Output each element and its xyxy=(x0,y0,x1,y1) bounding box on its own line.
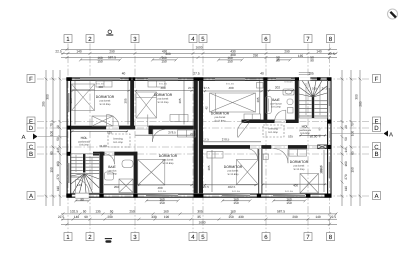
svg-text:S=1.2mp: S=1.2mp xyxy=(113,141,123,144)
nightstand dorm-br xyxy=(263,154,268,160)
door post H1 xyxy=(149,126,154,135)
door baie-top xyxy=(275,110,286,121)
svg-text:145: 145 xyxy=(344,147,348,153)
svg-text:DORMITOR: DORMITOR xyxy=(154,93,173,97)
interior room dim lines xyxy=(71,81,327,192)
exterior wall outlines (double line) xyxy=(67,78,332,198)
winder rays xyxy=(299,94,313,97)
post top-left corner xyxy=(66,77,72,81)
bottom overall dim xyxy=(61,223,337,226)
bed dorm-br xyxy=(300,174,319,194)
svg-text:A: A xyxy=(21,134,25,141)
wall V4 baie/hol xyxy=(295,80,299,122)
door baie-bottom xyxy=(104,154,115,165)
svg-text:400: 400 xyxy=(98,85,103,89)
svg-text:190: 190 xyxy=(164,215,170,219)
svg-text:65: 65 xyxy=(351,151,355,155)
party wall leaf 2 xyxy=(199,80,203,193)
bed dorm2 xyxy=(136,92,157,118)
wall H3 seg c xyxy=(288,145,307,149)
svg-text:±1.00: ±1.00 xyxy=(99,144,107,148)
svg-text:587.5: 587.5 xyxy=(277,209,285,213)
axis 2 xyxy=(89,44,91,233)
stair walk line xyxy=(75,155,77,172)
svg-text:140: 140 xyxy=(316,49,322,53)
windows (gray glazing bands) xyxy=(69,79,330,196)
svg-text:22.5: 22.5 xyxy=(328,52,334,56)
svg-text:S=1.9mp: S=1.9mp xyxy=(268,131,278,134)
window baie top xyxy=(276,78,291,80)
svg-text:250: 250 xyxy=(253,53,259,57)
treads right flight xyxy=(314,100,327,102)
dressing left xyxy=(108,134,130,147)
wardrobe dorm-bl xyxy=(178,130,196,137)
rotated interior dims xyxy=(69,97,323,174)
svg-text:150: 150 xyxy=(161,59,167,63)
wall H3 seg a xyxy=(203,145,250,149)
wall H3 seg b xyxy=(261,145,271,149)
entry door gap top-right xyxy=(299,77,310,81)
north symbol xyxy=(388,9,398,19)
axis F xyxy=(37,78,371,80)
wall H4 seg b xyxy=(114,152,137,156)
window right wall stair xyxy=(328,88,330,106)
svg-text:160: 160 xyxy=(344,161,348,167)
axis 8 xyxy=(329,44,331,233)
interior dimension texts xyxy=(77,85,328,190)
wall H1 seg a xyxy=(71,126,107,130)
window stair top-right xyxy=(321,78,327,80)
svg-text:fe=1.5m: fe=1.5m xyxy=(158,190,166,193)
top overall dim line xyxy=(61,48,337,51)
shower baie-bottom xyxy=(119,179,133,193)
hatch box H3 right xyxy=(318,145,327,149)
axis 1 xyxy=(67,44,69,233)
svg-text:40: 40 xyxy=(260,71,264,75)
window dorm2 top xyxy=(148,78,178,80)
svg-text:DORMITOR: DORMITOR xyxy=(224,165,243,169)
svg-text:285: 285 xyxy=(359,101,363,107)
dresser dorm2 xyxy=(170,115,188,122)
porch lines bottom-left xyxy=(75,198,89,200)
svg-text:270: 270 xyxy=(56,174,60,180)
svg-text:90: 90 xyxy=(310,59,314,63)
marker 2 bottom xyxy=(86,233,94,241)
section marker A left xyxy=(21,134,37,142)
stair bottom-left xyxy=(71,154,100,193)
window dorm1 top xyxy=(80,78,120,80)
marker F right xyxy=(373,75,381,83)
post axis7 bottom xyxy=(306,194,310,198)
svg-text:17.5: 17.5 xyxy=(203,138,209,142)
marker 8 bottom xyxy=(327,233,335,241)
window left wall dorm1 xyxy=(68,93,70,112)
svg-text:B: B xyxy=(374,151,378,158)
svg-text:S=12.8mp: S=12.8mp xyxy=(163,162,175,165)
svg-text:S=12.2mp: S=12.2mp xyxy=(158,101,170,104)
post right wall C xyxy=(327,145,331,149)
svg-text:278.5: 278.5 xyxy=(168,130,176,134)
svg-text:305: 305 xyxy=(256,97,260,102)
axis C xyxy=(37,146,371,148)
wall V7 stair/baie-bottom xyxy=(100,152,104,194)
room labels xyxy=(78,93,317,176)
bed dorm-bm xyxy=(237,160,259,185)
svg-text:27.5: 27.5 xyxy=(322,86,328,90)
svg-text:270: 270 xyxy=(344,174,348,180)
svg-text:fe=0.6m: fe=0.6m xyxy=(285,81,293,84)
svg-text:90: 90 xyxy=(80,197,84,201)
winder rays xyxy=(71,174,84,177)
svg-text:587.5: 587.5 xyxy=(108,55,116,59)
wall H4 seg a xyxy=(93,152,105,156)
svg-text:290: 290 xyxy=(109,49,115,53)
wall H2 seg b xyxy=(286,120,299,123)
svg-text:100: 100 xyxy=(50,131,54,137)
post V7 bottom xyxy=(99,194,103,198)
section line stubs xyxy=(38,134,383,137)
post V8 bottom xyxy=(257,194,261,198)
svg-text:27.5: 27.5 xyxy=(204,86,210,90)
svg-text:400: 400 xyxy=(160,86,165,90)
window dorm-bm bottom xyxy=(222,194,250,197)
marker 8 top xyxy=(327,35,335,43)
svg-text:160: 160 xyxy=(230,209,236,213)
svg-text:430: 430 xyxy=(238,215,244,219)
post axis6 top xyxy=(263,77,267,81)
svg-text:90: 90 xyxy=(276,59,280,63)
svg-text:135: 135 xyxy=(95,209,101,213)
post V4 top xyxy=(295,77,299,81)
porch lines top-right xyxy=(299,72,311,74)
svg-text:HOL: HOL xyxy=(81,136,88,140)
window captions xyxy=(96,81,293,193)
post right wall E xyxy=(327,120,331,124)
top wall faces xyxy=(67,77,332,79)
wall H2 seg a (dorm3 stub + baie) xyxy=(242,120,275,123)
svg-text:402.5: 402.5 xyxy=(228,185,236,189)
svg-text:300: 300 xyxy=(355,94,359,100)
svg-text:160: 160 xyxy=(163,209,169,213)
svg-text:140: 140 xyxy=(76,49,82,53)
marker 7 bottom xyxy=(304,233,312,241)
post left wall B xyxy=(67,152,71,156)
svg-text:285: 285 xyxy=(42,101,46,107)
svg-text:202: 202 xyxy=(275,86,280,90)
svg-text:290: 290 xyxy=(292,215,298,219)
svg-text:S=4.0mp: S=4.0mp xyxy=(107,173,117,176)
svg-text:D: D xyxy=(29,125,34,132)
svg-text:50: 50 xyxy=(110,209,114,213)
svg-text:fe=1.5m: fe=1.5m xyxy=(285,190,293,193)
svg-text:70: 70 xyxy=(351,123,355,127)
wall V1 dorm1/dorm2 xyxy=(130,80,134,129)
wc baie-bottom xyxy=(122,160,133,168)
marker D left xyxy=(27,124,35,132)
marker 1 top xyxy=(64,35,72,43)
window middle glazing lines xyxy=(69,79,330,196)
svg-text:110: 110 xyxy=(344,186,348,191)
svg-text:150: 150 xyxy=(228,215,234,219)
dresser dorm1 xyxy=(92,116,113,126)
post party wall top xyxy=(194,77,204,81)
dressing right xyxy=(263,125,284,137)
window dorm3 top xyxy=(215,78,245,80)
wardrobe dorm3 xyxy=(244,114,261,119)
svg-text:430: 430 xyxy=(151,215,157,219)
svg-text:70: 70 xyxy=(50,123,54,127)
svg-text:202: 202 xyxy=(114,185,119,189)
svg-text:20: 20 xyxy=(56,125,60,129)
svg-text:278.5: 278.5 xyxy=(222,138,230,142)
post top-right corner xyxy=(317,77,321,81)
svg-text:27.5: 27.5 xyxy=(188,86,194,90)
svg-text:40: 40 xyxy=(122,71,126,75)
window left wall stair xyxy=(68,163,70,183)
top third dim row xyxy=(61,56,337,59)
svg-text:A: A xyxy=(389,132,393,139)
svg-text:110: 110 xyxy=(56,186,60,191)
svg-text:535: 535 xyxy=(288,134,293,138)
door dorm-bl xyxy=(153,130,165,142)
axis A xyxy=(37,195,371,197)
marker 6 bottom xyxy=(262,233,270,241)
party wall leaf 1 xyxy=(194,80,198,193)
svg-text:35: 35 xyxy=(197,215,201,219)
svg-text:±0.00: ±0.00 xyxy=(310,135,318,139)
svg-text:27.5: 27.5 xyxy=(203,185,209,189)
bottom dim row 3 xyxy=(61,218,337,221)
svg-text:150: 150 xyxy=(50,167,54,173)
marker A right xyxy=(373,192,381,200)
right vertical dim chains xyxy=(341,70,362,206)
bottom wall faces xyxy=(67,193,332,195)
furniture xyxy=(72,73,319,201)
treads right flight xyxy=(86,156,100,158)
posts axis3 top xyxy=(129,77,132,81)
svg-text:400: 400 xyxy=(157,186,162,190)
bed dorm3 xyxy=(210,93,256,112)
marker F left xyxy=(27,75,35,83)
svg-text:102.5: 102.5 xyxy=(70,209,78,213)
svg-text:BAIE: BAIE xyxy=(108,165,116,169)
marker 2 top xyxy=(86,35,94,43)
axis D xyxy=(37,127,371,129)
bathtub baie-top xyxy=(265,97,271,114)
svg-text:BAIE: BAIE xyxy=(272,98,280,102)
svg-text:DORMITOR: DORMITOR xyxy=(211,112,230,116)
svg-text:27.5: 27.5 xyxy=(190,132,196,136)
door dorm3 xyxy=(238,123,249,138)
svg-text:DORMITOR: DORMITOR xyxy=(96,95,115,99)
post party wall bottom xyxy=(194,194,204,198)
wall V6 baie-bottom/dorm-bl xyxy=(134,152,138,194)
svg-text:290: 290 xyxy=(107,215,113,219)
svg-text:305: 305 xyxy=(197,209,203,213)
marker C right xyxy=(373,143,381,151)
axis 5 xyxy=(202,44,204,233)
marker 6 top xyxy=(262,35,270,43)
marker 3 bottom xyxy=(131,233,139,241)
top window dim rows xyxy=(79,58,292,61)
svg-text:42: 42 xyxy=(205,106,209,110)
interior walls xyxy=(71,80,307,193)
marker 7 top xyxy=(304,35,312,43)
marker 4 top xyxy=(189,35,197,43)
svg-text:S=12.2mp: S=12.2mp xyxy=(294,168,306,171)
wall V3 dorm3/baie xyxy=(264,80,268,122)
svg-text:DORMITOR: DORMITOR xyxy=(159,154,178,158)
marker 5 top xyxy=(199,35,207,43)
section marker A right xyxy=(384,131,394,139)
svg-text:S=12.9mp: S=12.9mp xyxy=(100,103,112,106)
svg-text:140: 140 xyxy=(74,215,80,219)
svg-text:150: 150 xyxy=(351,167,355,173)
svg-text:150: 150 xyxy=(233,201,239,205)
bottom window dim rows xyxy=(74,199,306,202)
marker B right xyxy=(373,150,381,158)
svg-text:400: 400 xyxy=(293,183,298,187)
svg-text:fe=1.5m: fe=1.5m xyxy=(232,190,240,193)
stair divider xyxy=(83,154,85,173)
treads left flight xyxy=(71,156,83,158)
svg-text:400: 400 xyxy=(228,86,233,90)
svg-text:22.5: 22.5 xyxy=(55,49,61,53)
wall H1 seg b xyxy=(119,126,135,130)
axis 7 xyxy=(307,44,309,233)
axis 3 xyxy=(134,44,136,233)
right wall faces xyxy=(330,78,332,198)
svg-text:150: 150 xyxy=(286,201,292,205)
svg-text:150: 150 xyxy=(97,59,103,63)
window dorm-bl bottom xyxy=(146,194,178,197)
sink baie-top xyxy=(283,89,294,95)
post bottom-left corner xyxy=(66,194,72,198)
svg-text:1600: 1600 xyxy=(198,220,205,224)
marker D right xyxy=(373,124,381,132)
post bottom-right corner xyxy=(325,194,332,198)
window dorm-br bottom xyxy=(273,194,305,197)
door dorm1 xyxy=(107,115,120,128)
svg-text:305: 305 xyxy=(69,98,73,103)
riser symbol bottom xyxy=(105,239,112,243)
svg-text:27.5: 27.5 xyxy=(193,71,199,75)
svg-text:300: 300 xyxy=(46,94,50,100)
svg-text:160: 160 xyxy=(56,161,60,167)
axis B xyxy=(37,153,371,155)
svg-text:305: 305 xyxy=(207,165,211,170)
marker 3 top xyxy=(131,35,139,43)
svg-text:F: F xyxy=(29,76,33,83)
svg-text:DORMITOR: DORMITOR xyxy=(290,160,309,164)
svg-text:105: 105 xyxy=(312,86,317,90)
svg-text:S=6.2mp: S=6.2mp xyxy=(79,144,89,147)
stair divider xyxy=(312,95,314,118)
svg-text:S=12.8mp: S=12.8mp xyxy=(215,119,227,122)
svg-text:145: 145 xyxy=(56,147,60,153)
entry door bottom-left xyxy=(76,179,89,192)
post V6 bottom xyxy=(133,194,137,198)
grid axis lines xyxy=(37,44,371,233)
svg-text:22.5: 22.5 xyxy=(330,215,336,219)
marker 5 bottom xyxy=(199,233,207,241)
svg-text:B: B xyxy=(29,151,33,158)
svg-text:65: 65 xyxy=(50,151,54,155)
marker E right xyxy=(373,117,381,125)
bottom dim row 2 xyxy=(61,212,338,215)
axis 6 xyxy=(265,44,267,233)
walk line xyxy=(305,83,307,115)
svg-text:HOL: HOL xyxy=(302,125,309,129)
marker E left xyxy=(27,117,35,125)
svg-text:150: 150 xyxy=(159,201,165,205)
marker B left xyxy=(27,150,35,158)
wardrobe dorm-bm xyxy=(207,152,223,159)
marker A left xyxy=(27,192,35,200)
svg-text:135: 135 xyxy=(298,54,304,58)
door dorm-bm xyxy=(247,149,258,160)
wardrobe dorm2 xyxy=(148,81,165,87)
riser symbol top xyxy=(106,30,113,35)
svg-text:290: 290 xyxy=(284,49,290,53)
marker 1 bottom xyxy=(64,233,72,241)
svg-text:305: 305 xyxy=(124,98,128,103)
svg-text:D: D xyxy=(374,125,379,132)
svg-text:S=4.2mp: S=4.2mp xyxy=(271,106,281,109)
svg-text:F: F xyxy=(375,76,379,83)
svg-text:20: 20 xyxy=(344,125,348,129)
svg-text:305: 305 xyxy=(178,98,182,103)
wall H1 seg c xyxy=(149,126,194,130)
svg-text:140: 140 xyxy=(315,215,321,219)
svg-text:146: 146 xyxy=(77,183,82,187)
svg-text:22.5: 22.5 xyxy=(58,215,64,219)
sink baie-bottom xyxy=(105,172,114,180)
svg-text:S=12.8mp: S=12.8mp xyxy=(228,173,240,176)
marker C left xyxy=(27,143,35,151)
axis E xyxy=(37,121,371,123)
svg-text:535: 535 xyxy=(107,130,112,134)
entry door gap bottom-left xyxy=(75,193,89,198)
door opening threshold lines xyxy=(105,120,319,155)
wardrobe dorm-br xyxy=(289,149,307,156)
stair top-right xyxy=(299,81,328,119)
wc baie-top xyxy=(287,99,293,105)
svg-text:50: 50 xyxy=(344,137,348,141)
top axis dim line xyxy=(61,52,338,55)
post left wall mid xyxy=(67,126,71,130)
bed dorm1 xyxy=(72,84,95,111)
svg-text:90: 90 xyxy=(84,215,88,219)
bed dorm-bl xyxy=(138,160,165,186)
svg-text:105: 105 xyxy=(308,71,314,75)
window right wall dorm-br xyxy=(328,162,330,178)
left vertical dim chains xyxy=(45,70,62,206)
left wall faces xyxy=(66,78,68,198)
structural posts on exterior walls xyxy=(66,77,331,197)
svg-text:50: 50 xyxy=(83,209,87,213)
svg-text:302.5: 302.5 xyxy=(319,166,323,174)
treads left flight xyxy=(299,100,312,102)
marker 4 bottom xyxy=(189,233,197,241)
wardrobe dorm1 xyxy=(96,81,112,87)
svg-text:150: 150 xyxy=(227,59,233,63)
door dorm-br xyxy=(274,149,289,164)
doors (arcs) xyxy=(76,110,400,193)
axis 4 xyxy=(192,44,194,233)
dressing dashed boxes xyxy=(108,125,284,147)
svg-text:50: 50 xyxy=(56,137,60,141)
